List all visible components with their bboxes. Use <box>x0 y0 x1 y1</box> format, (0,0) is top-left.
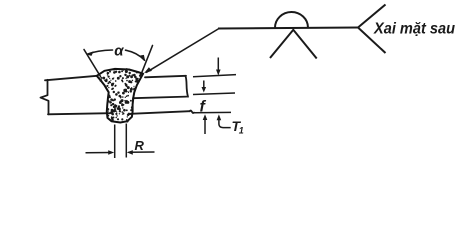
svg-text:α: α <box>114 42 124 59</box>
svg-text:R: R <box>135 138 145 153</box>
svg-text:1: 1 <box>239 126 244 136</box>
svg-text:Xai mặt sau: Xai mặt sau <box>373 21 455 38</box>
